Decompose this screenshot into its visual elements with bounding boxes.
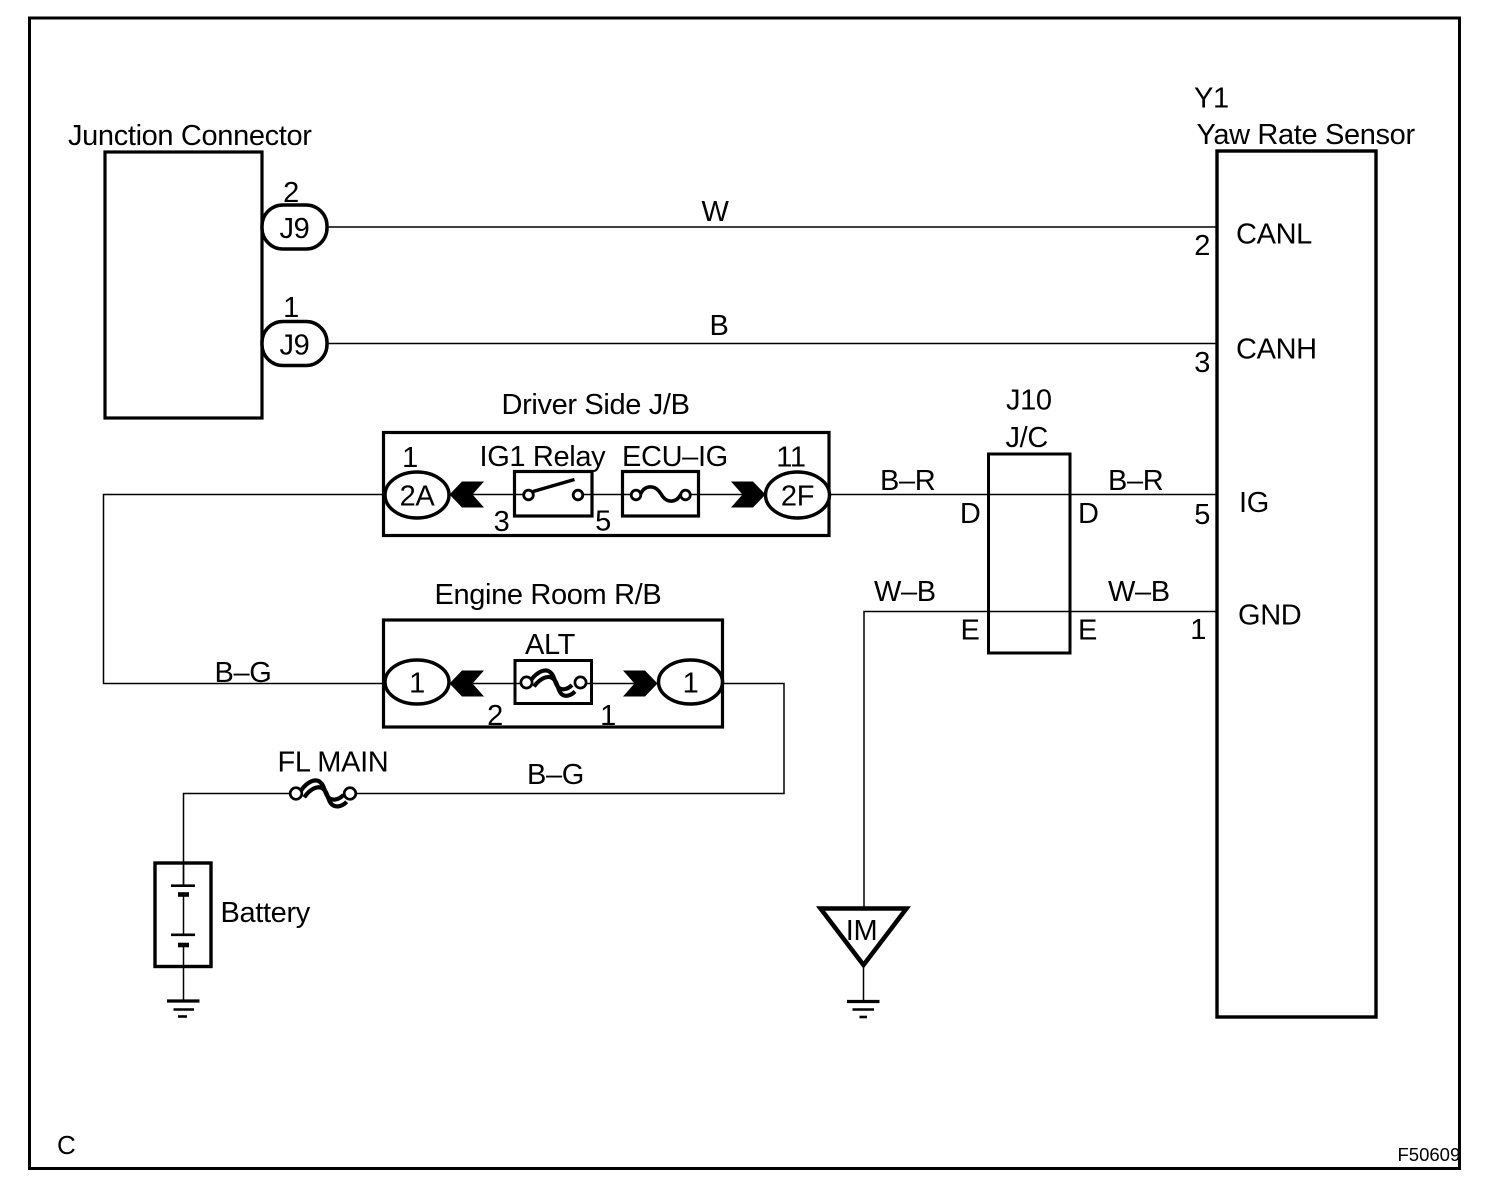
svg-text:Yaw Rate Sensor: Yaw Rate Sensor [1197, 119, 1416, 151]
svg-text:Y1: Y1 [1194, 83, 1229, 115]
svg-text:2: 2 [487, 700, 503, 732]
svg-text:Junction Connector: Junction Connector [68, 120, 312, 152]
svg-text:GND: GND [1238, 600, 1301, 632]
svg-text:FL MAIN: FL MAIN [278, 747, 389, 779]
svg-text:5: 5 [595, 506, 611, 538]
svg-text:C: C [57, 1130, 76, 1160]
svg-text:IG1 Relay: IG1 Relay [480, 441, 607, 473]
svg-text:W: W [701, 196, 729, 228]
svg-text:1: 1 [283, 292, 299, 324]
svg-text:3: 3 [1194, 347, 1210, 379]
svg-text:CANL: CANL [1236, 219, 1312, 251]
svg-text:D: D [960, 498, 981, 530]
svg-text:1: 1 [409, 668, 425, 700]
svg-text:1: 1 [1190, 614, 1206, 646]
svg-text:F50609: F50609 [1398, 1144, 1461, 1165]
svg-text:3: 3 [494, 506, 510, 538]
svg-text:E: E [1078, 615, 1097, 647]
svg-text:B–G: B–G [527, 759, 584, 791]
svg-text:2: 2 [283, 177, 299, 209]
svg-text:Engine Room R/B: Engine Room R/B [435, 579, 662, 611]
svg-text:CANH: CANH [1236, 334, 1317, 366]
svg-text:W–B: W–B [874, 576, 936, 608]
svg-text:5: 5 [1194, 499, 1210, 531]
svg-text:ECU–IG: ECU–IG [622, 441, 728, 473]
svg-text:B–G: B–G [215, 657, 272, 689]
svg-text:ALT: ALT [525, 629, 576, 661]
svg-text:1: 1 [683, 668, 699, 700]
svg-text:11: 11 [776, 442, 805, 474]
svg-text:B: B [710, 310, 729, 342]
svg-text:J9: J9 [280, 213, 310, 245]
svg-text:B–R: B–R [1108, 465, 1163, 497]
svg-text:IM: IM [846, 915, 878, 947]
svg-text:Battery: Battery [221, 897, 311, 929]
svg-text:J9: J9 [280, 330, 310, 362]
svg-text:E: E [961, 615, 980, 647]
svg-text:Driver Side J/B: Driver Side J/B [502, 389, 690, 421]
svg-text:J/C: J/C [1006, 422, 1048, 454]
svg-text:W–B: W–B [1108, 576, 1170, 608]
svg-text:B–R: B–R [880, 465, 935, 497]
svg-text:2A: 2A [400, 481, 436, 513]
svg-text:2F: 2F [781, 481, 814, 513]
svg-text:D: D [1078, 498, 1099, 530]
svg-text:IG: IG [1239, 487, 1269, 519]
svg-text:J10: J10 [1006, 385, 1052, 417]
svg-text:1: 1 [600, 700, 616, 732]
svg-text:2: 2 [1194, 230, 1210, 262]
svg-text:1: 1 [402, 442, 418, 474]
